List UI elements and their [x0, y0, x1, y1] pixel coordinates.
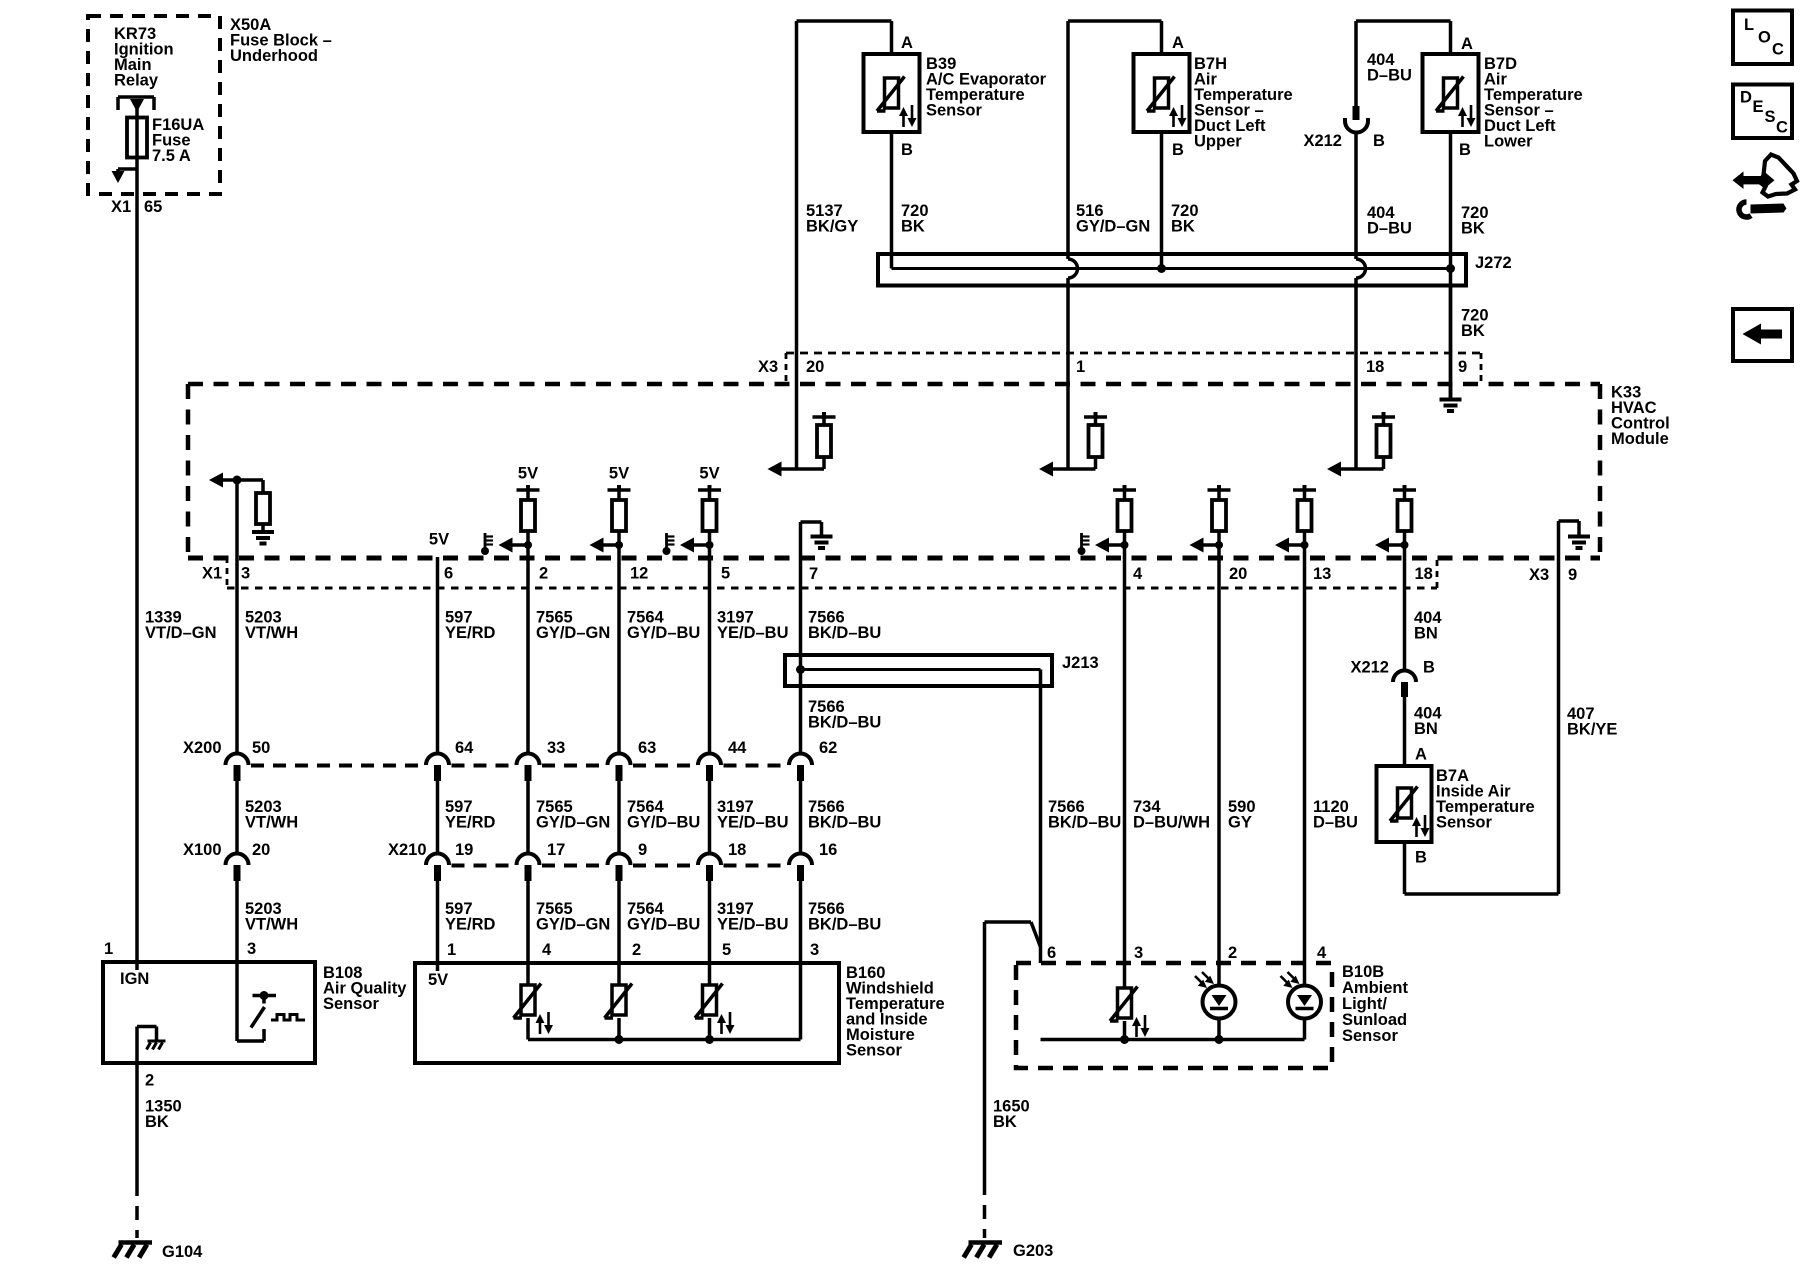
svg-text:BK: BK [901, 218, 925, 236]
svg-text:3: 3 [1134, 944, 1143, 962]
svg-text:50: 50 [252, 739, 270, 757]
svg-text:YE/D–BU: YE/D–BU [717, 814, 789, 832]
svg-text:B: B [1172, 141, 1184, 159]
wire 7565 GY/D-GN segment 3 [526, 881, 530, 985]
svg-text:5: 5 [721, 565, 730, 583]
svg-text:BK/D–BU: BK/D–BU [808, 814, 881, 832]
svg-text:S: S [1765, 108, 1776, 126]
svg-text:X212: X212 [1303, 132, 1342, 150]
svg-text:Sensor: Sensor [1342, 1027, 1399, 1045]
pin labels B160 [447, 941, 819, 959]
svg-text:A: A [1415, 746, 1427, 764]
label 597 YE/RD row C [445, 900, 496, 934]
label 5V B160 [428, 971, 448, 989]
label X210 and pins 19 17 9 18 16 [388, 841, 837, 859]
svg-text:Upper: Upper [1194, 133, 1242, 151]
sensor B7D air temperature duct left lower [1356, 21, 1479, 398]
svg-text:J272: J272 [1475, 254, 1512, 272]
label 5V at X1-6 [429, 531, 449, 549]
svg-text:YE/D–BU: YE/D–BU [717, 916, 789, 934]
svg-text:Sensor: Sensor [846, 1042, 903, 1060]
wire 597 YE/RD [436, 557, 440, 754]
svg-text:9: 9 [1568, 566, 1577, 584]
label 5137 BK/GY [806, 202, 858, 236]
svg-text:2: 2 [632, 941, 641, 959]
svg-text:YE/RD: YE/RD [445, 916, 496, 934]
wire 404 D-BU to X3-18 [1356, 259, 1366, 384]
svg-text:3: 3 [810, 941, 819, 959]
svg-text:J213: J213 [1062, 654, 1099, 672]
label 5203 VT/WH row C [245, 900, 298, 934]
wire B7A return to X3-9 [1405, 558, 1559, 894]
svg-text:Lower: Lower [1484, 133, 1533, 151]
svg-text:18: 18 [1415, 565, 1433, 583]
svg-text:VT/WH: VT/WH [245, 814, 298, 832]
connector X1 bottom row [227, 557, 1437, 588]
svg-text:IGN: IGN [120, 970, 149, 988]
branch arrow to other circuits [112, 169, 138, 183]
svg-text:9: 9 [638, 841, 647, 859]
label B7D Air Temperature Sensor Duct Left Lower [1484, 55, 1583, 151]
label A B7D pin [1461, 35, 1473, 53]
internal input X1-20 with resistor [1190, 485, 1231, 553]
label X3 and pins 20 1 18 9 [758, 358, 1467, 376]
label B10B Ambient Light Sunload Sensor [1342, 963, 1409, 1045]
label 597 YE/RD row A [445, 609, 496, 643]
wire 7566 BK/D-BU [799, 557, 803, 754]
sensor B7A inside air temperature [1377, 766, 1432, 842]
wire 1350 BK [135, 1063, 139, 1238]
svg-text:3: 3 [241, 565, 250, 583]
svg-text:6: 6 [444, 565, 453, 583]
wire 1120 D-BU [1303, 545, 1307, 963]
wire 7564 GY/D-BU segment 3 [617, 881, 621, 985]
label F16UA Fuse 7.5 A [152, 116, 204, 165]
svg-text:VT/WH: VT/WH [245, 624, 298, 642]
svg-text:C: C [1772, 40, 1784, 58]
svg-text:2: 2 [539, 565, 548, 583]
internal bus B160 [528, 1035, 801, 1044]
wire 7566 BK/D-BU branch to B10B [985, 670, 1041, 964]
wire 7566 BK/D-BU segment 2 [799, 781, 803, 854]
svg-text:20: 20 [1229, 565, 1247, 583]
svg-text:18: 18 [728, 841, 746, 859]
svg-text:Underhood: Underhood [230, 47, 318, 65]
svg-text:BK/D–BU: BK/D–BU [808, 916, 881, 934]
sensor B160 windshield temperature and inside moisture sensor box [415, 963, 839, 1063]
label K33 HVAC Control Module [1611, 384, 1670, 449]
internal input X3-1 with pull-up resistor [1039, 384, 1107, 477]
wire 404 BN to B7A [1403, 697, 1407, 766]
label 1339 VT/D-GN [145, 609, 217, 643]
wire 5203 VT/WH segment 2 [235, 781, 239, 854]
module K33 HVAC control module dashed box [188, 384, 1600, 558]
svg-text:VT/WH: VT/WH [245, 916, 298, 934]
internal input X1-18 with resistor [1375, 485, 1416, 553]
svg-text:33: 33 [547, 739, 565, 757]
label 404 BN upper [1414, 609, 1442, 643]
connector X212 pin B top [1345, 21, 1368, 259]
thermistor B160 pin5 [695, 984, 735, 1040]
svg-text:D–BU: D–BU [1367, 219, 1412, 237]
wire 734 D-BU/WH [1123, 545, 1127, 963]
label 1120 D-BU [1313, 798, 1358, 832]
label B7A Inside Air Temperature Sensor [1436, 767, 1535, 832]
svg-text:20: 20 [252, 841, 270, 859]
svg-text:5V: 5V [699, 465, 719, 483]
internal 5V source X1-5 with resistor and thermometer [663, 465, 722, 556]
svg-text:G104: G104 [162, 1243, 203, 1261]
svg-text:5V: 5V [429, 531, 449, 549]
svg-text:65: 65 [144, 198, 162, 216]
svg-text:YE/D–BU: YE/D–BU [717, 624, 789, 642]
wire 7565 GY/D-GN [526, 545, 530, 754]
svg-text:BK: BK [1461, 219, 1485, 237]
wire 597 YE/RD segment 3 [436, 881, 440, 963]
label IGN [120, 970, 149, 988]
connector X100 [226, 854, 249, 882]
label X1 65 [111, 198, 162, 216]
svg-text:VT/D–GN: VT/D–GN [145, 624, 217, 642]
svg-text:Sensor: Sensor [926, 102, 983, 120]
label 404 D-BU upper [1367, 51, 1412, 85]
svg-text:GY/D–GN: GY/D–GN [1076, 218, 1150, 236]
svg-text:BK/D–BU: BK/D–BU [1048, 814, 1121, 832]
wire 1650 BK [983, 922, 987, 1238]
svg-text:YE/RD: YE/RD [445, 624, 496, 642]
svg-text:17: 17 [547, 841, 565, 859]
svg-text:C: C [1776, 118, 1788, 136]
svg-text:GY/D–BU: GY/D–BU [627, 624, 700, 642]
svg-text:G203: G203 [1013, 1242, 1053, 1260]
svg-text:5V: 5V [609, 465, 629, 483]
wire 7564 GY/D-BU [617, 545, 621, 754]
wire 597 YE/RD segment 2 [436, 781, 440, 854]
label B160 Windshield Temperature and Inside Moisture Sensor [846, 964, 945, 1060]
thermistor B160 pin2 [605, 984, 633, 1040]
label 597 YE/RD row B [445, 798, 496, 832]
svg-text:GY/D–GN: GY/D–GN [536, 916, 610, 934]
wire 590 GY [1217, 545, 1221, 963]
icon back arrow box [1733, 309, 1792, 361]
svg-text:A: A [1461, 35, 1473, 53]
thermistor B10B pin3 [1110, 963, 1150, 1040]
label X212 B bottom [1350, 659, 1435, 677]
svg-text:BK/D–BU: BK/D–BU [808, 624, 881, 642]
connector X200 row [226, 754, 813, 781]
pin labels B10B 6 3 2 4 [1047, 944, 1327, 962]
thermistor B160 pin4 [514, 984, 554, 1040]
sensor B7H air temperature duct left upper [1068, 21, 1190, 269]
internal bus B10B [1041, 1035, 1305, 1044]
icon LOC box [1733, 11, 1792, 65]
label 7566 BK/D-BU row C [808, 900, 881, 934]
svg-text:A: A [1172, 34, 1184, 52]
sensor B10B ambient light sunload sensor dashed box [1016, 963, 1332, 1068]
svg-text:9: 9 [1458, 358, 1467, 376]
icon tools double arrow [1733, 155, 1798, 218]
svg-text:A: A [901, 34, 913, 52]
svg-text:12: 12 [630, 565, 648, 583]
ground G104 [114, 1243, 152, 1258]
icon DESC box [1733, 85, 1792, 139]
svg-text:BN: BN [1414, 625, 1438, 643]
svg-text:GY/D–GN: GY/D–GN [536, 624, 610, 642]
svg-text:X212: X212 [1350, 659, 1389, 677]
svg-text:E: E [1753, 98, 1764, 116]
label X50A Fuse Block Underhood [230, 16, 332, 65]
label 7564 GY/D-BU row B [627, 798, 700, 832]
internal input X3-18 with pull-up resistor [1327, 384, 1395, 477]
label B B7H pin [1172, 141, 1184, 159]
svg-text:13: 13 [1313, 565, 1331, 583]
svg-text:B: B [1423, 659, 1435, 677]
label B B39 pin [901, 141, 913, 159]
label 7566 BK/D-BU branch [1048, 798, 1121, 832]
pin 2 label B108 [145, 1072, 154, 1090]
svg-text:4: 4 [1133, 565, 1143, 583]
label 7565 GY/D-GN row B [536, 798, 610, 832]
svg-text:18: 18 [1366, 358, 1384, 376]
svg-text:5V: 5V [428, 971, 448, 989]
wire stub IGN [135, 962, 139, 970]
wire stub B160 pin1 [436, 963, 440, 971]
internal ground B108 [137, 1027, 166, 1064]
svg-text:5V: 5V [518, 465, 538, 483]
svg-text:63: 63 [638, 739, 656, 757]
svg-text:1: 1 [104, 940, 113, 958]
svg-text:16: 16 [819, 841, 837, 859]
svg-text:3: 3 [247, 940, 256, 958]
svg-text:19: 19 [455, 841, 473, 859]
label 1350 BK [145, 1098, 182, 1132]
svg-text:X3: X3 [758, 358, 778, 376]
label 7564 GY/D-BU row C [627, 900, 700, 934]
svg-text:B: B [1373, 132, 1385, 150]
svg-text:GY/D–BU: GY/D–BU [627, 814, 700, 832]
label 720 BK (B7H) [1171, 202, 1199, 236]
internal input X1-13 with resistor [1275, 485, 1316, 553]
sensor B108 air quality sensor box [103, 962, 315, 1063]
svg-text:64: 64 [455, 739, 474, 757]
label 5203 VT/WH row A [245, 609, 298, 643]
svg-text:1: 1 [447, 941, 456, 959]
internal input X1-4 with resistor and thermometer [1078, 485, 1137, 555]
label B B7A pin [1415, 849, 1427, 867]
label 7566 BK/D-BU below J213 [808, 698, 881, 732]
label J272 [1475, 254, 1512, 272]
internal 5V source X1-12 with resistor [590, 465, 631, 553]
svg-text:2: 2 [1228, 944, 1237, 962]
wire 7565 GY/D-GN segment 2 [526, 781, 530, 854]
wire 3197 YE/D-BU segment 3 [708, 881, 712, 985]
wire 5137 BK/GY [795, 21, 799, 384]
svg-text:BK: BK [1171, 218, 1195, 236]
svg-text:GY/D–GN: GY/D–GN [536, 814, 610, 832]
internal ground at X1-7 [801, 522, 833, 557]
photodiode B10B pin4 [1281, 963, 1322, 1040]
photodiode B10B pin2 [1195, 963, 1236, 1040]
svg-text:Module: Module [1611, 430, 1669, 448]
connector X3 top row [786, 353, 1481, 381]
fuse block X50A dashed box [88, 16, 220, 194]
wire 7564 GY/D-BU segment 2 [617, 781, 621, 854]
label X100 and pin 20 [183, 841, 270, 859]
svg-text:D–BU: D–BU [1313, 814, 1358, 832]
label X200 and pins 50 64 33 63 44 62 [183, 739, 837, 757]
svg-text:4: 4 [1317, 944, 1327, 962]
pin labels B108 [104, 940, 256, 958]
wire 3197 YE/D-BU segment 2 [708, 781, 712, 854]
svg-text:Sensor: Sensor [1436, 814, 1493, 832]
svg-text:BK/D–BU: BK/D–BU [808, 714, 881, 732]
svg-text:7: 7 [809, 565, 818, 583]
svg-text:BN: BN [1414, 720, 1438, 738]
label A B7A pin [1415, 746, 1427, 764]
label 720 BK (B39) [901, 202, 929, 236]
label 407 BK/YE [1567, 705, 1617, 739]
internal ground X3-9 top [1440, 384, 1462, 411]
internal input X3-20 with pull-up resistor [768, 384, 836, 477]
svg-text:D–BU/WH: D–BU/WH [1133, 814, 1210, 832]
wire 404 BN from X1-18 [1403, 545, 1407, 671]
svg-text:44: 44 [728, 739, 747, 757]
relay KR73 contact [118, 97, 154, 112]
connector X210 row [426, 854, 812, 882]
wire relay to fuse to X1-65 [135, 99, 139, 194]
label B7H Air Temperature Sensor Duct Left Upper [1194, 55, 1293, 151]
wire 5203 VT/WH segment 3 [235, 881, 239, 962]
label 7564 GY/D-BU row A [627, 609, 700, 643]
svg-text:4: 4 [542, 941, 552, 959]
svg-text:X1: X1 [111, 198, 131, 216]
wire 720 BK to ground [1449, 285, 1453, 398]
label 7565 GY/D-GN row A [536, 609, 610, 643]
svg-text:X1: X1 [202, 565, 222, 583]
label 516 GY/D-GN [1076, 202, 1150, 236]
svg-text:BK: BK [993, 1113, 1017, 1131]
svg-text:D–BU: D–BU [1367, 67, 1412, 85]
svg-text:BK: BK [1461, 322, 1485, 340]
label 3197 YE/D-BU row A [717, 609, 789, 643]
label 590 GY [1228, 798, 1256, 832]
svg-text:X200: X200 [183, 739, 222, 757]
ground G203 [964, 1243, 1002, 1258]
wire 3197 YE/D-BU [708, 545, 712, 754]
label X3 9 bottom right [1529, 566, 1577, 584]
fuse F16UA [127, 118, 147, 158]
wire 7566 BK/D-BU segment 3 [799, 881, 803, 1040]
svg-text:L: L [1744, 16, 1754, 34]
connector X212 pin B bottom [1393, 671, 1416, 698]
label X212 B top [1303, 132, 1385, 150]
svg-text:X100: X100 [183, 841, 222, 859]
label G104 [162, 1243, 203, 1261]
svg-text:GY/D–BU: GY/D–BU [627, 916, 700, 934]
svg-text:BK: BK [145, 1113, 169, 1131]
svg-text:Relay: Relay [114, 72, 159, 90]
label B108 Air Quality Sensor [323, 964, 407, 1013]
svg-text:X3: X3 [1529, 566, 1549, 584]
internal switch contact B108 [237, 962, 305, 1041]
label B B7D pin [1459, 141, 1471, 159]
svg-text:GY: GY [1228, 814, 1252, 832]
wire 1339 VT/D-GN ignition feed [135, 194, 139, 962]
label B39 A/C Evaporator Temperature Sensor [926, 55, 1047, 120]
svg-text:O: O [1758, 28, 1771, 46]
svg-text:6: 6 [1047, 944, 1056, 962]
internal 5V source X1-2 with resistor and thermometer [481, 465, 540, 556]
sensor B39 A/C evaporator temperature [797, 21, 920, 269]
label G203 [1013, 1242, 1053, 1260]
label 7566 BK/D-BU row B [808, 798, 881, 832]
label 5203 VT/WH row B [245, 798, 298, 832]
label A B7H pin [1172, 34, 1184, 52]
svg-text:5: 5 [722, 941, 731, 959]
label 720 BK (B7D) [1461, 204, 1489, 238]
svg-text:20: 20 [806, 358, 824, 376]
svg-text:BK/GY: BK/GY [806, 218, 858, 236]
internal ground at X3-9 bottom [1559, 521, 1591, 558]
internal pull-down resistor to ground at X1-3 [209, 473, 274, 558]
svg-text:YE/RD: YE/RD [445, 814, 496, 832]
wire 516 GY/D-GN [1068, 21, 1078, 384]
svg-text:B: B [901, 141, 913, 159]
label 404 BN lower [1414, 705, 1442, 739]
svg-text:62: 62 [819, 739, 837, 757]
svg-text:D: D [1740, 88, 1752, 106]
svg-text:Sensor: Sensor [323, 995, 380, 1013]
label 1650 BK [993, 1098, 1030, 1132]
label KR73 Ignition Main Relay [114, 25, 174, 90]
splice pack J213 [785, 655, 1052, 686]
svg-text:BK/YE: BK/YE [1567, 720, 1617, 738]
label 3197 YE/D-BU row C [717, 900, 789, 934]
svg-text:2: 2 [145, 1072, 154, 1090]
label 7566 BK/D-BU row A [808, 609, 881, 643]
label 7565 GY/D-GN row C [536, 900, 610, 934]
svg-text:B: B [1459, 141, 1471, 159]
label X1 and pins [202, 565, 1433, 584]
wire 5203 VT/WH [235, 557, 239, 754]
label 404 D-BU lower [1367, 204, 1412, 238]
label 3197 YE/D-BU row B [717, 798, 789, 832]
label J213 [1062, 654, 1099, 672]
label 734 D-BU/WH [1133, 798, 1210, 832]
splice pack J272 [878, 254, 1466, 286]
label 720 BK below J272 [1461, 307, 1489, 341]
svg-text:7.5 A: 7.5 A [152, 147, 191, 165]
svg-text:B: B [1415, 849, 1427, 867]
svg-text:1: 1 [1076, 358, 1085, 376]
svg-text:X210: X210 [388, 841, 427, 859]
label A B39 pin [901, 34, 913, 52]
